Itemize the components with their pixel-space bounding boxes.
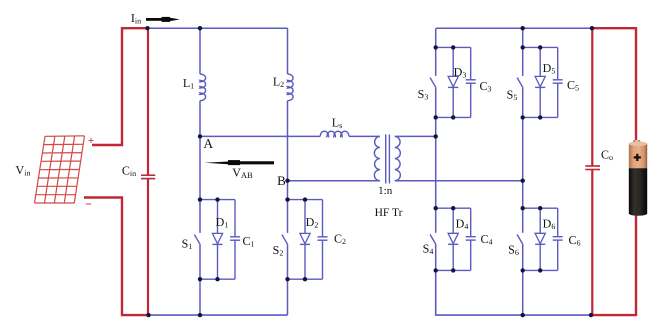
- svg-text:HF Tr: HF Tr: [375, 207, 403, 219]
- svg-text:+: +: [88, 135, 94, 147]
- svg-text:A: A: [203, 136, 213, 151]
- svg-text:1:n: 1:n: [378, 185, 393, 197]
- svg-text:−: −: [85, 197, 92, 211]
- svg-text:B: B: [277, 173, 286, 188]
